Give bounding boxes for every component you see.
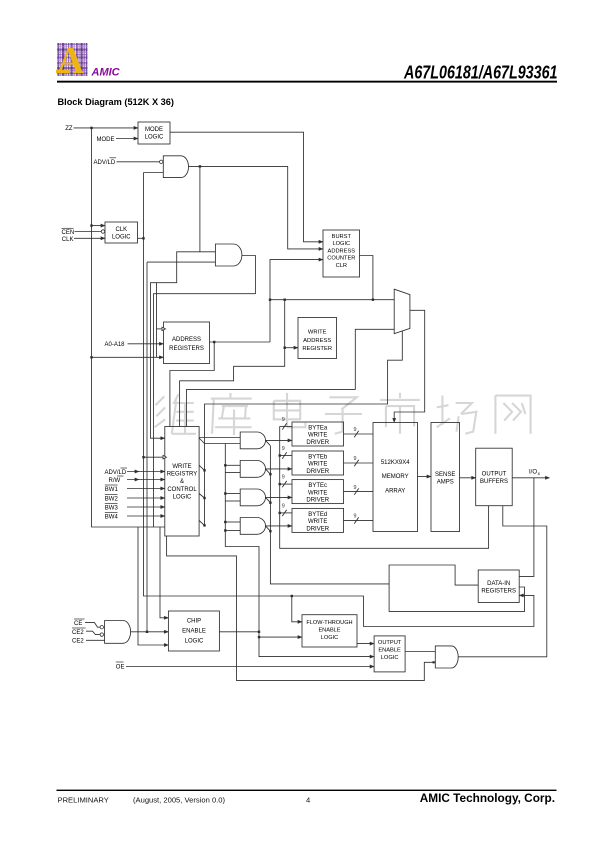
svg-text:R/W: R/W <box>109 478 121 484</box>
svg-text:MODE: MODE <box>97 137 115 143</box>
svg-text:BYTEd: BYTEd <box>308 512 327 518</box>
svg-text:WRITE: WRITE <box>308 330 327 336</box>
svg-text:SENSE: SENSE <box>435 472 455 478</box>
svg-text:DRIVER: DRIVER <box>306 469 329 475</box>
svg-text:MODE: MODE <box>145 127 163 133</box>
svg-text:OUTPUT: OUTPUT <box>378 640 402 646</box>
svg-text:ADDRESS: ADDRESS <box>303 338 331 344</box>
svg-text:CLR: CLR <box>336 263 347 269</box>
svg-text:ADDRESS: ADDRESS <box>328 248 356 254</box>
svg-text:9: 9 <box>282 475 285 481</box>
svg-text:BYTEa: BYTEa <box>308 426 328 432</box>
svg-text:CE2: CE2 <box>72 639 84 645</box>
svg-text:LOGIC: LOGIC <box>381 655 399 661</box>
svg-text:LOGIC: LOGIC <box>173 494 192 500</box>
svg-text:LOGIC: LOGIC <box>112 235 131 241</box>
svg-text:9: 9 <box>282 504 285 510</box>
svg-text:WRITE: WRITE <box>172 464 191 470</box>
svg-text:(August, 2005, Version 0.0): (August, 2005, Version 0.0) <box>133 795 225 804</box>
svg-text:REGISTERS: REGISTERS <box>169 346 204 352</box>
svg-text:9: 9 <box>354 427 357 433</box>
svg-text:CEN: CEN <box>62 230 75 236</box>
svg-text:CE2: CE2 <box>72 630 84 636</box>
svg-text:LOGIC: LOGIC <box>332 241 350 247</box>
svg-text:WRITE: WRITE <box>308 490 327 496</box>
svg-text:9: 9 <box>282 446 285 452</box>
svg-text:DRIVER: DRIVER <box>306 440 329 446</box>
svg-text:&: & <box>180 479 184 485</box>
svg-text:ENABLE: ENABLE <box>378 648 401 654</box>
svg-text:ENABLE: ENABLE <box>182 629 206 635</box>
svg-text:BURST: BURST <box>332 234 352 240</box>
svg-text:LOGIC: LOGIC <box>145 135 164 141</box>
svg-text:9: 9 <box>354 456 357 462</box>
svg-text:ZZ: ZZ <box>65 126 73 132</box>
svg-text:CLK: CLK <box>115 227 127 233</box>
svg-text:ARRAY: ARRAY <box>385 489 405 495</box>
svg-text:BW2: BW2 <box>105 497 119 503</box>
svg-text:PRELIMINARY: PRELIMINARY <box>58 795 109 804</box>
svg-text:CHIP: CHIP <box>187 619 201 625</box>
svg-text:COUNTER: COUNTER <box>327 256 355 262</box>
svg-text:9: 9 <box>354 485 357 491</box>
svg-text:DRIVER: DRIVER <box>306 526 329 532</box>
svg-text:OUTPUT: OUTPUT <box>482 472 507 478</box>
svg-text:ADDRESS: ADDRESS <box>172 337 201 343</box>
svg-text:REGISTRY: REGISTRY <box>167 472 198 478</box>
svg-text:CONTROL: CONTROL <box>167 487 197 493</box>
svg-text:9: 9 <box>282 417 285 423</box>
svg-text:BW3: BW3 <box>105 506 119 512</box>
svg-text:4: 4 <box>306 795 310 804</box>
svg-text:BYTEb: BYTEb <box>308 455 328 461</box>
svg-text:A0-A18: A0-A18 <box>105 342 126 348</box>
svg-text:ADV/LD: ADV/LD <box>105 470 127 476</box>
svg-text:LOGIC: LOGIC <box>185 639 204 645</box>
svg-text:LOGIC: LOGIC <box>321 635 338 641</box>
svg-text:AMIC Technology, Corp.: AMIC Technology, Corp. <box>420 791 555 805</box>
svg-text:CLK: CLK <box>62 237 74 243</box>
svg-text:I/O: I/O <box>529 470 537 476</box>
svg-text:OE: OE <box>116 665 125 671</box>
svg-text:WRITE: WRITE <box>308 433 327 439</box>
svg-text:ADV/LD: ADV/LD <box>94 160 116 166</box>
svg-text:WRITE: WRITE <box>308 462 327 468</box>
svg-text:DATA-IN: DATA-IN <box>487 581 510 587</box>
svg-text:DRIVER: DRIVER <box>306 498 329 504</box>
svg-text:BW1: BW1 <box>105 487 119 493</box>
svg-text:REGISTERS: REGISTERS <box>481 589 516 595</box>
svg-text:BW4: BW4 <box>105 515 119 521</box>
svg-text:Block Diagram (512K X 36): Block Diagram (512K X 36) <box>58 97 174 107</box>
svg-text:A: A <box>57 40 85 82</box>
svg-text:ENABLE: ENABLE <box>318 628 340 634</box>
svg-text:AMPS: AMPS <box>437 480 454 486</box>
svg-text:A67L06181/A67L93361: A67L06181/A67L93361 <box>403 63 557 83</box>
svg-text:CE: CE <box>74 621 82 627</box>
svg-text:WRITE: WRITE <box>308 519 327 525</box>
svg-text:9: 9 <box>354 514 357 520</box>
svg-text:REGISTER: REGISTER <box>302 346 332 352</box>
svg-text:BUFFERS: BUFFERS <box>480 479 508 485</box>
svg-text:512KX9X4: 512KX9X4 <box>381 460 410 466</box>
svg-text:MEMORY: MEMORY <box>382 474 409 480</box>
svg-text:AMIC: AMIC <box>91 67 121 79</box>
svg-text:FLOW-THROUGH: FLOW-THROUGH <box>306 620 352 626</box>
svg-text:BYTEc: BYTEc <box>308 483 327 489</box>
